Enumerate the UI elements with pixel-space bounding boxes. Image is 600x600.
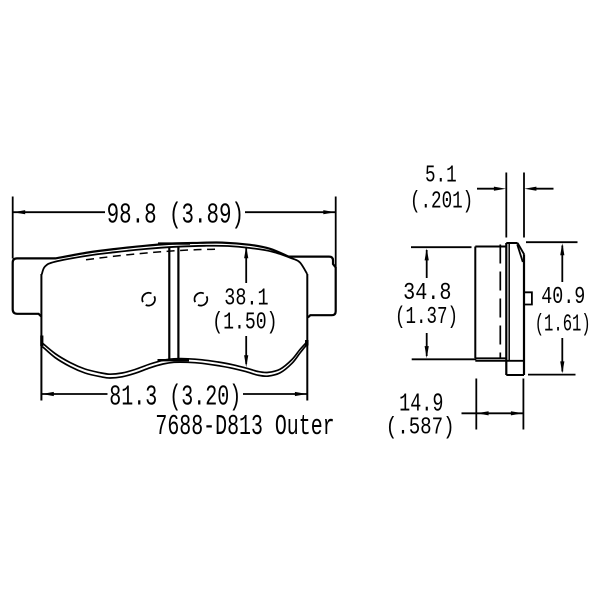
- arrowhead 14.9 right: [511, 411, 523, 415]
- svg-text:7688-D813 Outer: 7688-D813 Outer: [155, 410, 334, 443]
- side: friction block left: [474, 247, 476, 359]
- side: friction block bottom line 1: [475, 357, 506, 359]
- pad bottom edge upper line: [42, 343, 306, 375]
- slot left line: [168, 247, 170, 360]
- pad outer top edge: [55, 242, 289, 258]
- dim 81.3 line right segment: [243, 393, 307, 395]
- arrowhead 34.8 up: [425, 248, 429, 260]
- svg-text:5.1: 5.1: [425, 163, 457, 190]
- slot right line: [177, 247, 179, 360]
- dim 98.8 line left segment: [13, 211, 105, 213]
- dim 5.1 left arrow line: [477, 188, 496, 190]
- dim 40.9 bottom arrow line: [561, 338, 563, 372]
- arrowhead 14.9 left: [477, 411, 489, 415]
- dim 81.3 line left segment: [42, 393, 108, 395]
- dim 40.9 bottom extension: [528, 374, 576, 376]
- dim 40.9 top extension: [526, 241, 578, 243]
- hole left: [142, 293, 155, 306]
- arrowhead 81.3 left: [42, 392, 54, 396]
- dim 34.8 bottom arrow line: [426, 333, 428, 356]
- svg-text:98.8 (3.89): 98.8 (3.89): [107, 199, 244, 232]
- dim 34.8 top extension: [411, 246, 472, 248]
- side: plate bottom edge: [506, 374, 524, 376]
- pad bottom edge lower line: [42, 345, 306, 378]
- arrowhead 40.9 down: [560, 361, 564, 373]
- junction blob bottom-left: [40, 336, 43, 347]
- dim 5.1 left extension: [505, 173, 507, 238]
- side: plate top edge: [506, 242, 517, 244]
- side: plate right edge: [523, 255, 525, 376]
- side: chamfer line 2: [517, 244, 523, 262]
- svg-text:40.9: 40.9: [541, 284, 585, 311]
- left ear outline: [13, 258, 56, 316]
- junction blob bottom-right: [305, 340, 309, 346]
- svg-text:(.201): (.201): [410, 189, 473, 216]
- svg-text:(.587): (.587): [386, 415, 455, 442]
- arrowhead 5.1 right pointing left: [524, 187, 536, 191]
- dim 14.9 line: [462, 412, 524, 414]
- friction left edge + extension line 81.3: [40, 274, 42, 401]
- arrowhead 5.1 left pointing right: [494, 187, 506, 191]
- dim 98.8 left extension line: [12, 197, 14, 259]
- dim 5.1 right arrow line: [534, 188, 554, 190]
- arrowhead 98.8 left: [13, 210, 25, 214]
- side: friction block top: [475, 246, 506, 248]
- side: chamfer line 1: [518, 243, 525, 255]
- slot top cap thick: [158, 242, 190, 244]
- dim 98.8 line right segment: [245, 211, 335, 213]
- arrowhead 34.8 down: [425, 346, 429, 358]
- dim 34.8 top arrow line: [426, 250, 428, 278]
- arrowhead 38.1 up: [244, 246, 248, 258]
- dim 14.9 left extension: [475, 379, 477, 430]
- side: hidden dashed line: [499, 245, 501, 359]
- arrowhead 98.8 right: [323, 210, 335, 214]
- slot bottom cap thick: [158, 359, 190, 361]
- right ear outline: [289, 257, 336, 318]
- side: plate inner left line: [508, 244, 510, 361]
- side: friction bottom line 2 long: [475, 360, 524, 362]
- side: nub: [524, 292, 532, 304]
- svg-text:(1.61): (1.61): [535, 312, 591, 339]
- svg-text:(1.50): (1.50): [212, 309, 277, 336]
- arrowhead 38.1 down: [244, 355, 248, 367]
- svg-text:(1.37): (1.37): [395, 304, 458, 331]
- dim 98.8 right extension line: [335, 197, 337, 268]
- dim 34.8 bottom extension: [412, 358, 477, 360]
- dim 38.1 top arrow line: [245, 248, 247, 283]
- arrowhead 40.9 up: [560, 243, 564, 255]
- hidden chamfer dashed arc: [86, 249, 217, 260]
- arrowhead 81.3 right: [295, 392, 307, 396]
- dim 14.9 right extension: [522, 379, 524, 430]
- friction right edge + extension line 81.3: [306, 274, 308, 401]
- dim 5.1 right extension: [523, 173, 525, 238]
- side: plate left edge: [505, 243, 507, 375]
- hole right: [195, 293, 208, 306]
- svg-text:81.3 (3.20): 81.3 (3.20): [109, 380, 241, 413]
- dim 38.1 bottom arrow line: [245, 336, 247, 364]
- svg-text:34.8: 34.8: [403, 280, 451, 307]
- dim 40.9 top arrow line: [561, 246, 563, 283]
- pad inner (friction) top edge: [42, 246, 307, 275]
